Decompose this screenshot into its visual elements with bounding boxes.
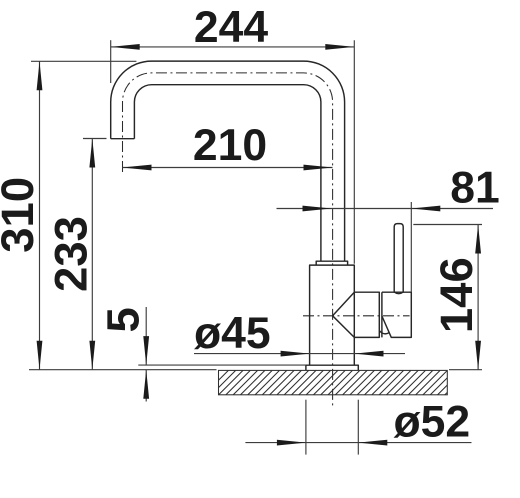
svg-text:146: 146: [431, 257, 482, 333]
dim 146: [413, 224, 482, 226]
spout outlet end: [111, 138, 135, 140]
dim 310: [31, 60, 136, 62]
svg-text:ø45: ø45: [194, 309, 271, 358]
svg-text:81: 81: [450, 164, 500, 213]
svg-text:244: 244: [194, 3, 268, 52]
body: [310, 265, 355, 365]
spout outer outline: [111, 61, 345, 261]
dim 5: [138, 364, 306, 366]
countertop hatch block: [204, 370, 469, 394]
dim ø52: [245, 442, 471, 444]
dim 233: [83, 138, 107, 140]
svg-text:210: 210: [193, 121, 267, 170]
handle axis centerline: [303, 315, 410, 317]
svg-text:233: 233: [46, 216, 97, 292]
svg-text:5: 5: [98, 307, 149, 332]
handle housing: [382, 292, 411, 337]
svg-text:310: 310: [0, 177, 43, 253]
spout inner outline: [134, 85, 321, 262]
mixing cone: [333, 292, 380, 337]
spout centerline: [123, 73, 333, 408]
dim ø45: [194, 353, 405, 355]
escutcheon plate: [306, 365, 358, 370]
lever rod end cap: [394, 292, 403, 294]
dim 244: [111, 46, 355, 48]
handle seam arc: [380, 331, 389, 334]
countertop surface line left: [29, 369, 217, 371]
dim 81: [277, 208, 494, 210]
collar: [316, 261, 347, 265]
dim 210: [123, 167, 333, 169]
lever rod: [394, 224, 403, 293]
joint ring: [381, 292, 383, 337]
svg-text:ø52: ø52: [394, 398, 471, 447]
